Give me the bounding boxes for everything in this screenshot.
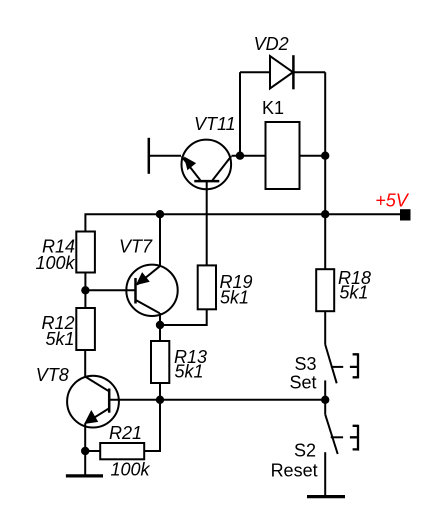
switch S2 bottom contact to ground xyxy=(324,452,326,496)
svg-text:100k: 100k xyxy=(35,253,75,273)
switch S3 arm xyxy=(325,345,337,384)
svg-text:+5V: +5V xyxy=(375,191,410,211)
transistor VT7 xyxy=(126,265,177,316)
wire R12 to VT8 collector xyxy=(84,350,86,377)
wire VT11 right lead to K1 xyxy=(232,155,266,157)
wire R18 bottom xyxy=(324,311,326,344)
node dot VT7 base xyxy=(81,286,89,294)
terminal +5V square xyxy=(400,209,411,220)
transistor VT8 xyxy=(67,376,119,428)
wire VD2 horizontal xyxy=(240,71,325,73)
transistor VT11 xyxy=(182,140,232,190)
node dot VT11 collector xyxy=(236,152,244,160)
wire VT11 base to R19 top xyxy=(206,182,208,266)
wire base bus horizontal xyxy=(109,399,325,401)
svg-text:VT8: VT8 xyxy=(36,365,69,385)
switch S3 bottom contact xyxy=(324,380,326,399)
switch S2 button bracket xyxy=(350,425,358,451)
svg-text:5k1: 5k1 xyxy=(220,288,249,308)
wire R21 left lead xyxy=(85,450,100,452)
svg-text:VD2: VD2 xyxy=(254,34,289,54)
switch S2 arm xyxy=(325,414,338,454)
wire VT7 collector to R13 xyxy=(159,313,161,341)
node dot K1 right xyxy=(321,152,329,160)
node dot VT7 collector xyxy=(156,321,164,329)
wire VT11 left lead xyxy=(149,155,181,157)
relay coil K1 xyxy=(266,122,300,189)
wire node to R19 bottom xyxy=(160,309,207,325)
svg-text:Set: Set xyxy=(289,372,316,392)
svg-text:5k1: 5k1 xyxy=(45,329,74,349)
wire K1 right lead xyxy=(300,155,326,157)
svg-text:R21: R21 xyxy=(109,423,142,443)
wire R14 to R12 xyxy=(84,273,86,309)
node dot rail-mid xyxy=(156,210,164,218)
svg-text:VT11: VT11 xyxy=(194,114,236,134)
node dot rail-right xyxy=(321,210,329,218)
wire S3 to S2 xyxy=(324,400,326,415)
wire right bus vertical xyxy=(324,72,326,269)
wire VT7 emitter to rail xyxy=(159,214,161,265)
svg-text:VT7: VT7 xyxy=(119,236,153,256)
svg-text:5k1: 5k1 xyxy=(175,362,204,382)
wire VT7 base xyxy=(85,289,135,291)
resistor R12 xyxy=(76,308,95,350)
svg-text:S3: S3 xyxy=(294,354,316,374)
resistor R18 xyxy=(316,269,334,311)
diode VD2 xyxy=(270,55,293,89)
node dot VT8 emitter xyxy=(81,447,89,455)
resistor R14 xyxy=(76,232,95,273)
switch S3 actuator dash xyxy=(331,366,343,368)
svg-text:S2: S2 xyxy=(294,440,316,460)
wire VD2 left vertical xyxy=(239,72,241,156)
terminal bar at VT11 emitter xyxy=(148,138,151,174)
ground under VT8 xyxy=(66,474,103,477)
svg-text:Reset: Reset xyxy=(271,460,318,480)
switch S3 button bracket xyxy=(350,353,358,378)
wire VT8 emitter to ground xyxy=(84,424,86,476)
svg-text:5k1: 5k1 xyxy=(339,283,368,303)
wire R21 right lead to node xyxy=(144,400,160,451)
resistor R21 xyxy=(100,443,144,459)
wire R13 bottom xyxy=(159,383,161,400)
node dot S3 bottom xyxy=(321,396,329,404)
svg-text:100k: 100k xyxy=(111,460,151,480)
resistor R13 xyxy=(151,341,169,383)
switch S2 actuator dash xyxy=(331,436,343,438)
ground under S2 xyxy=(307,495,345,498)
svg-text:K1: K1 xyxy=(262,98,284,118)
wire +5V rail xyxy=(85,214,400,231)
resistor R19 xyxy=(198,265,216,309)
node dot base bus xyxy=(156,396,164,404)
